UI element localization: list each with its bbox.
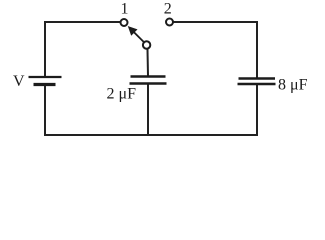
svg-text:2 μF: 2 μF — [107, 86, 137, 103]
svg-text:1: 1 — [121, 0, 129, 17]
svg-text:8 μF: 8 μF — [278, 77, 308, 94]
svg-text:V: V — [13, 73, 25, 90]
svg-text:2: 2 — [164, 0, 172, 17]
